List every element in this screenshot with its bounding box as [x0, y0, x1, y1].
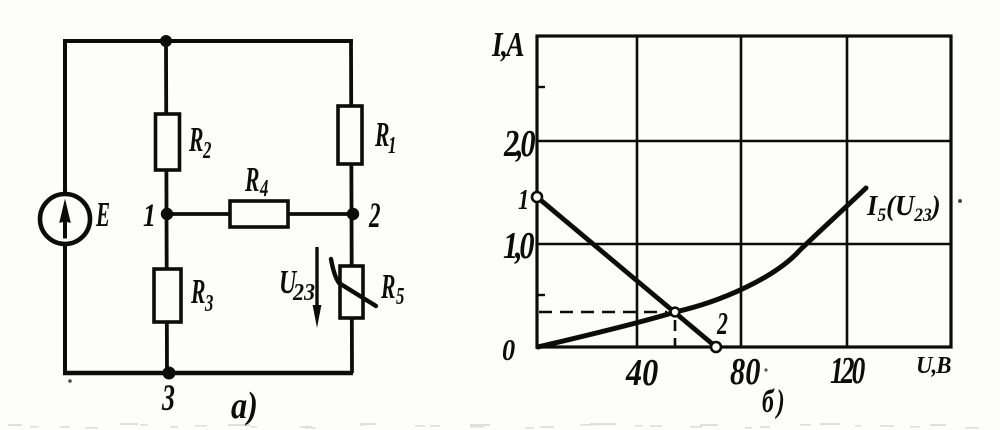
- label U,B (x axis): [916, 352, 951, 379]
- resistor R1: [338, 106, 362, 164]
- label 1,0: [503, 225, 534, 267]
- svg-text:1: 1: [518, 185, 529, 216]
- svg-text:E: E: [95, 196, 110, 235]
- wire: middle horizontal with R4: [167, 212, 353, 216]
- wire: left vertical branch with source E: [63, 41, 67, 373]
- svg-text:U,В: U,В: [916, 352, 951, 379]
- label 0 (origin): [502, 333, 515, 367]
- wire: bottom horizontal: [63, 371, 353, 376]
- label E: [95, 196, 110, 235]
- graph: vertical grid line 120: [846, 36, 849, 347]
- svg-text:3: 3: [161, 378, 175, 419]
- node 3: [163, 367, 176, 380]
- graph: load line from point 1 to point 2: [537, 197, 716, 347]
- svg-text:а): а): [231, 385, 258, 427]
- graph: y-axis tick 0.5: [537, 294, 545, 296]
- label I,A (y axis): [491, 25, 524, 64]
- svg-text:1: 1: [143, 198, 156, 234]
- label I5(U23) curve name: [866, 190, 941, 225]
- wire: right branch (R1/R5 column): [351, 41, 352, 373]
- svg-text:0: 0: [502, 333, 515, 367]
- label 80: [730, 351, 760, 393]
- svg-text:2: 2: [202, 138, 211, 163]
- graph: curve I5(U23): [538, 188, 866, 347]
- svg-text:1: 1: [388, 133, 396, 158]
- label R2: [188, 121, 211, 164]
- svg-text:23: 23: [292, 278, 315, 305]
- svg-text:R: R: [374, 116, 389, 154]
- graph: y-axis tick 2.5: [537, 86, 545, 88]
- graph: open circle at intersection: [671, 308, 680, 317]
- scan speck near 80 label: [764, 368, 767, 371]
- voltage arrow U23: [313, 247, 322, 328]
- resistor R5 (nonlinear, with diagonal slash): [331, 259, 376, 318]
- svg-text:б): б): [762, 383, 788, 420]
- svg-text:2,0: 2,0: [503, 123, 535, 165]
- graph: dashed vertical guide: [674, 320, 677, 346]
- svg-text:R: R: [190, 273, 205, 311]
- svg-text:5: 5: [396, 284, 404, 309]
- svg-text:R: R: [188, 121, 203, 159]
- label point 1: [518, 185, 529, 216]
- svg-text:I,A: I,A: [491, 25, 524, 64]
- graph: open circle at point 2: [711, 342, 721, 352]
- wire: middle branch (R2/R3 column): [166, 41, 167, 373]
- graph: horizontal grid line 1.0: [537, 243, 951, 246]
- label U23: [279, 264, 315, 305]
- resistor R4: [230, 201, 288, 227]
- node 2: [347, 208, 359, 220]
- svg-text:R: R: [380, 268, 395, 306]
- label 40: [625, 352, 658, 394]
- graph: vertical grid line 80: [740, 36, 743, 347]
- graph: vertical grid line 40: [636, 36, 639, 347]
- svg-text:40: 40: [625, 352, 658, 394]
- svg-text:3: 3: [204, 291, 213, 316]
- node 1: [161, 208, 173, 220]
- label b) sub-figure: [762, 383, 788, 420]
- label R1: [374, 116, 396, 159]
- label point 2: [716, 306, 728, 341]
- scan speck right of curve label: [958, 199, 962, 203]
- graph: dashed horizontal guide: [539, 311, 667, 314]
- label node 3: [161, 378, 175, 419]
- source E (circle with up arrow): [40, 194, 90, 244]
- svg-text:80: 80: [730, 351, 760, 393]
- svg-text:4: 4: [259, 176, 268, 201]
- label 2,0: [503, 123, 535, 165]
- wire: top horizontal: [63, 39, 353, 43]
- svg-text:120: 120: [830, 350, 865, 392]
- svg-text:1,0: 1,0: [503, 225, 534, 267]
- graph: open circle at point 1: [532, 192, 542, 202]
- svg-text:I5(U23): I5(U23): [866, 190, 941, 225]
- graph: horizontal grid line 2.0: [537, 140, 951, 143]
- svg-text:2: 2: [368, 195, 380, 235]
- graph: plot border: [537, 36, 951, 347]
- label node 1: [143, 198, 156, 234]
- svg-text:2: 2: [716, 306, 728, 341]
- scan noise row at bottom: [8, 423, 979, 429]
- resistor R3: [154, 269, 181, 322]
- label R4: [244, 161, 268, 202]
- label R5: [380, 268, 404, 310]
- svg-text:R: R: [244, 161, 259, 199]
- label a) sub-figure: [231, 385, 258, 427]
- label 120: [830, 350, 865, 392]
- resistor R2: [156, 114, 180, 170]
- label node 2: [368, 195, 380, 235]
- node junction top (R2 to top wire): [160, 35, 172, 47]
- label R3: [190, 273, 213, 317]
- scan speck below bottom-left corner: [68, 379, 72, 383]
